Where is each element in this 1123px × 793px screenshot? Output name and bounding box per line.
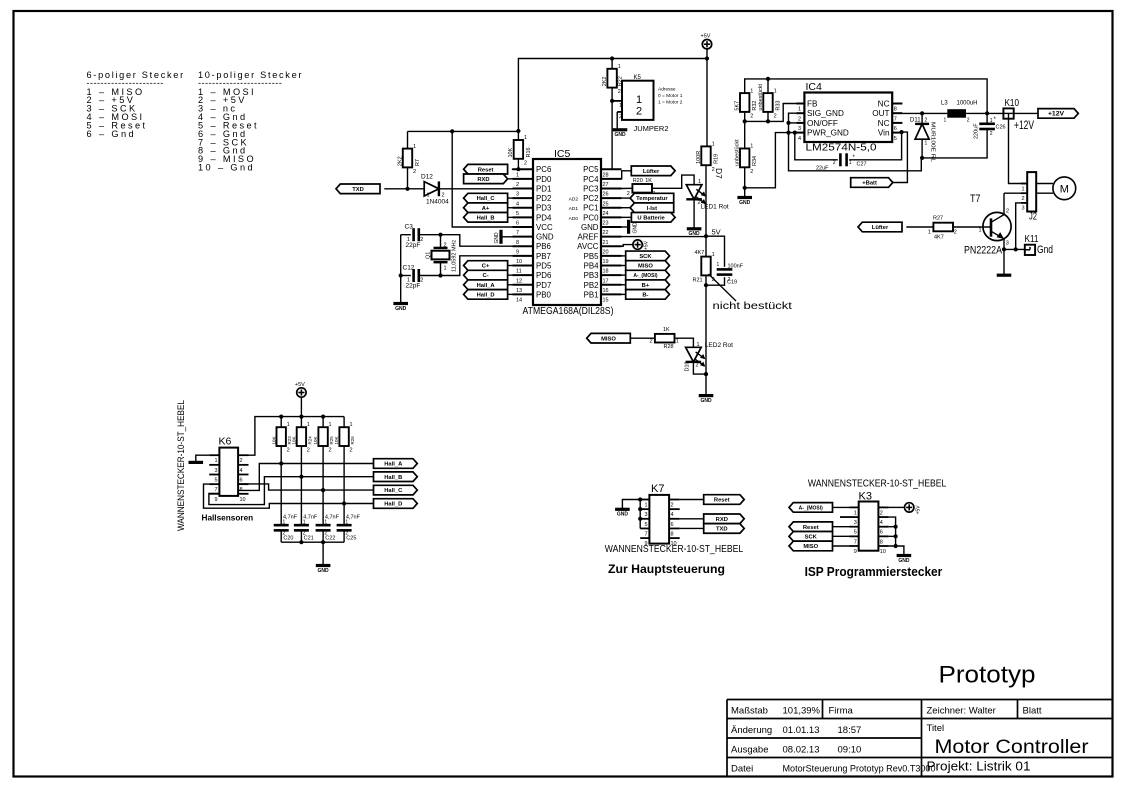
svg-text:5: 5 [214, 478, 217, 484]
svg-text:10K: 10K [334, 436, 339, 444]
wire K3 gnd drop [896, 546, 904, 556]
svg-text:2: 2 [618, 89, 621, 95]
svg-text:GND: GND [633, 222, 639, 234]
pin 5 Vin [892, 132, 902, 134]
svg-text:08.02.13: 08.02.13 [783, 745, 820, 756]
resistor R21 [705, 236, 707, 256]
resistor R34 [740, 149, 749, 168]
title block table [727, 700, 1112, 777]
pin 16 PB2 [601, 284, 622, 286]
svg-text:Datei: Datei [731, 764, 753, 775]
wire jumper gnd [616, 112, 618, 129]
pin 6 PD4 [513, 216, 534, 218]
svg-text:AD2: AD2 [569, 196, 579, 202]
wire R20 to LED1 [652, 175, 694, 188]
pin 26 PC3 [601, 187, 622, 189]
capacitor C20 [274, 524, 289, 527]
svg-text:1: 1 [697, 342, 700, 348]
wire AREF 5V line [622, 236, 707, 238]
svg-text:101,39%: 101,39% [783, 706, 821, 717]
wire K3 pin8 [889, 535, 896, 537]
svg-text:1: 1 [698, 179, 701, 185]
svg-text:WANNENSTECKER-10-ST_HEBEL: WANNENSTECKER-10-ST_HEBEL [605, 544, 744, 555]
svg-text:1: 1 [444, 266, 447, 272]
junction [342, 501, 346, 505]
svg-text:GND: GND [898, 558, 910, 564]
pin 6 NC [892, 122, 902, 124]
svg-text:GND: GND [614, 132, 626, 138]
svg-text:2: 2 [833, 160, 836, 166]
svg-text:K7: K7 [651, 483, 664, 495]
svg-text:3: 3 [1022, 206, 1025, 212]
junction [1014, 247, 1018, 251]
net flag Reset [464, 164, 508, 174]
power +5V top [702, 40, 711, 49]
svg-text:2: 2 [240, 458, 243, 464]
pin 2 SIG_GND [796, 112, 804, 114]
svg-text:Projekt: Listrik 01: Projekt: Listrik 01 [927, 759, 1031, 774]
svg-text:R26: R26 [350, 436, 355, 445]
svg-text:5V: 5V [712, 228, 721, 237]
svg-text:4K7: 4K7 [934, 235, 944, 241]
legend 10-poliger Stecker [198, 70, 303, 172]
svg-text:Lüfter: Lüfter [643, 169, 660, 175]
wire gnd drop [322, 542, 324, 565]
wire Hall_B to pin9 [209, 477, 374, 505]
svg-text:NC: NC [878, 119, 890, 128]
wire +5V to R19 [706, 59, 708, 147]
svg-text:2: 2 [798, 116, 801, 122]
svg-text:0 = Motor 1: 0 = Motor 1 [658, 93, 683, 99]
svg-text:PWR_GND: PWR_GND [807, 129, 849, 138]
svg-text:1: 1 [524, 135, 527, 141]
svg-text:1: 1 [717, 262, 720, 268]
svg-text:PC0: PC0 [583, 213, 599, 222]
ground [613, 128, 628, 131]
resistor R7 [407, 131, 409, 148]
ground [737, 196, 752, 199]
junction [399, 273, 403, 277]
junction [766, 77, 770, 81]
wire K7 gnd [622, 500, 640, 510]
connector K11 Gnd [1025, 245, 1035, 255]
svg-text:3: 3 [214, 468, 217, 474]
resistor R19 [701, 146, 710, 165]
pin 17 PB3 [601, 274, 622, 276]
svg-text:+5V: +5V [916, 505, 922, 515]
net flag A-_(MOSI) [626, 270, 670, 280]
svg-text:TXD: TXD [352, 187, 364, 193]
svg-text:1: 1 [849, 160, 852, 166]
junction [704, 283, 708, 287]
svg-text:7: 7 [644, 531, 647, 537]
svg-text:nicht bestückt: nicht bestückt [713, 300, 792, 312]
wire K3 pin9 [833, 545, 850, 547]
net flag U Batterie [631, 213, 675, 223]
svg-text:Hall_C: Hall_C [477, 196, 496, 202]
svg-text:Lüfter: Lüfter [872, 225, 889, 231]
pin 10 PB7 [513, 255, 534, 257]
svg-text:6: 6 [671, 522, 674, 528]
svg-text:PC2: PC2 [583, 194, 598, 203]
svg-text:L3: L3 [941, 101, 948, 107]
svg-text:I-Ist: I-Ist [647, 206, 657, 212]
ground at pin 22 [627, 220, 630, 234]
svg-text:NC: NC [878, 100, 890, 109]
svg-text:JUMPER2: JUMPER2 [634, 124, 669, 133]
ground at pin 8 [499, 230, 502, 244]
svg-text:WANNENSTECKER-10-ST_HEBEL: WANNENSTECKER-10-ST_HEBEL [808, 479, 947, 490]
svg-text:2: 2 [774, 114, 777, 120]
svg-text:2K2: 2K2 [397, 156, 403, 166]
net flag Hall_A [464, 280, 508, 290]
ground [189, 461, 204, 464]
svg-text:+5V: +5V [295, 382, 305, 388]
svg-text:AREF: AREF [577, 233, 598, 242]
svg-text:LM2574N-5,0: LM2574N-5,0 [806, 142, 877, 154]
svg-text:1: 1 [516, 172, 519, 178]
connector K10 [1003, 108, 1013, 118]
junction [638, 507, 642, 511]
svg-text:18: 18 [603, 269, 609, 275]
svg-text:5K7: 5K7 [735, 101, 741, 111]
pin 7 VCC [513, 226, 534, 228]
svg-text:2: 2 [420, 237, 423, 243]
svg-text:U Batterie: U Batterie [637, 215, 665, 221]
pin 25 PC2 [601, 197, 622, 199]
svg-text:Hall_C: Hall_C [384, 488, 403, 494]
svg-text:6 – Gnd: 6 – Gnd [87, 129, 137, 139]
net flag TXD [336, 184, 380, 194]
LED D7 LED1 Rot [686, 185, 702, 200]
capacitor C3 [401, 234, 411, 236]
svg-text:28: 28 [603, 172, 609, 178]
wire feedback top rail [745, 79, 987, 114]
svg-text:RXD: RXD [716, 517, 728, 523]
svg-text:11,0592 MHz: 11,0592 MHz [452, 239, 458, 272]
svg-text:GND: GND [581, 223, 599, 232]
svg-text:5: 5 [854, 530, 857, 536]
svg-text:Maßstab: Maßstab [731, 706, 768, 717]
svg-text:PB2: PB2 [584, 281, 599, 290]
svg-text:22: 22 [603, 230, 609, 236]
svg-text:PC3: PC3 [583, 184, 599, 193]
svg-text:Hallsensoren: Hallsensoren [202, 513, 254, 523]
svg-text:1: 1 [214, 458, 217, 464]
svg-text:R27: R27 [933, 216, 943, 222]
wire cap gnd [400, 235, 402, 304]
svg-text:C12: C12 [403, 264, 415, 271]
resistor R25 [322, 417, 324, 428]
wire D12 to PD1 [439, 188, 533, 190]
wire K3 pin7 [833, 535, 850, 537]
svg-text:ATMEGA168A(DIL28S): ATMEGA168A(DIL28S) [523, 305, 614, 317]
svg-text:1K: 1K [645, 178, 652, 184]
pin 3 ON/OFF [796, 122, 804, 124]
svg-text:7: 7 [516, 230, 519, 236]
ground [699, 394, 714, 397]
pin 12 PD6 [513, 274, 534, 276]
svg-text:AD0: AD0 [569, 216, 579, 222]
svg-text:PN2222A: PN2222A [964, 245, 1003, 257]
svg-text:1: 1 [303, 520, 306, 526]
wire cap to gnd rail [322, 531, 324, 542]
wire J2 pin3 to K11 [1016, 203, 1027, 250]
svg-text:10K: 10K [271, 436, 276, 444]
svg-text:Reset: Reset [478, 167, 494, 173]
power +5V K3 [905, 503, 914, 512]
wire K7 pin8 TXD [680, 527, 704, 529]
svg-text:GND: GND [617, 512, 629, 518]
svg-text:GND: GND [700, 398, 712, 404]
junction [438, 233, 442, 237]
svg-text:Prototyp: Prototyp [939, 662, 1036, 689]
svg-text:1K: 1K [663, 327, 670, 333]
junction [894, 544, 898, 548]
capacitor C27 [795, 133, 838, 160]
svg-text:7: 7 [854, 539, 857, 545]
wire K10 to J2 [1009, 119, 1028, 184]
LED D10 LED2 Rot [686, 347, 702, 362]
svg-text:1N4004: 1N4004 [426, 199, 449, 206]
pin 22 GND [601, 226, 622, 228]
svg-text:SIG_GND: SIG_GND [807, 109, 844, 118]
svg-text:2: 2 [524, 160, 527, 166]
net flag B+ [626, 280, 670, 290]
wire pullup column [343, 446, 345, 525]
wire K3 pin1 [833, 506, 850, 508]
svg-text:C26: C26 [996, 125, 1006, 131]
svg-text:PC4: PC4 [583, 175, 599, 184]
wire J2 pin2 to collector [1004, 192, 1027, 194]
svg-text:MISO: MISO [638, 264, 653, 270]
svg-text:10: 10 [880, 549, 886, 555]
net flag I-Ist [630, 203, 674, 213]
svg-text:2: 2 [636, 106, 642, 118]
label nicht bestueckt [709, 274, 737, 301]
pin 7 OUT [892, 112, 902, 114]
net flag SCK K3 [789, 532, 833, 542]
junction [450, 129, 454, 133]
svg-text:K10: K10 [1005, 97, 1020, 109]
junction [704, 372, 708, 376]
svg-text:2K2: 2K2 [602, 77, 608, 87]
pin 8 GND [513, 236, 534, 238]
svg-text:C20: C20 [283, 536, 293, 542]
net flag MISO K3 [789, 541, 833, 551]
svg-text:3: 3 [798, 126, 801, 132]
junction [705, 56, 709, 60]
svg-text:D11: D11 [910, 118, 921, 124]
junction [610, 99, 614, 103]
svg-text:2: 2 [925, 118, 928, 124]
svg-text:2: 2 [750, 114, 753, 120]
pin 27 PC4 [601, 178, 622, 180]
power +5V K6 [297, 388, 306, 397]
svg-text:PB0: PB0 [536, 290, 552, 299]
junction [321, 488, 325, 492]
resistor R32 [740, 93, 749, 112]
svg-text:5: 5 [644, 522, 647, 528]
svg-text:15: 15 [603, 298, 609, 304]
ground [316, 564, 331, 567]
svg-text:D12: D12 [421, 174, 433, 181]
junction [299, 475, 303, 479]
net flag Hall_B [374, 472, 418, 482]
svg-text:1: 1 [925, 141, 928, 147]
svg-text:2: 2 [954, 230, 957, 236]
svg-text:1: 1 [1022, 186, 1025, 192]
svg-text:A-_(MOSI): A-_(MOSI) [633, 273, 658, 279]
svg-text:C-: C- [483, 273, 489, 279]
svg-text:3: 3 [644, 512, 647, 518]
junction [894, 525, 898, 529]
pin 20 AVCC [601, 245, 622, 247]
svg-text:IC5: IC5 [554, 148, 571, 160]
svg-text:2: 2 [967, 118, 970, 124]
svg-text:1: 1 [618, 64, 621, 70]
svg-text:Hall_D: Hall_D [384, 502, 402, 508]
svg-text:1: 1 [287, 422, 290, 428]
svg-text:PB7: PB7 [536, 252, 551, 261]
net flag Hall_C [374, 485, 418, 495]
wire Hall_C to pin8 [238, 484, 373, 490]
svg-text:1: 1 [854, 510, 857, 516]
svg-text:10 – Gnd: 10 – Gnd [198, 163, 255, 173]
pin 9 PB6 [513, 245, 534, 247]
wire SIG_GND rail [789, 113, 922, 171]
wire K7 pin2 Reset [680, 499, 704, 501]
svg-text:MUR100E RL: MUR100E RL [930, 122, 936, 163]
svg-text:Hall_A: Hall_A [477, 283, 496, 289]
svg-text:Hall_D: Hall_D [477, 292, 495, 298]
wire K3 pin6 [889, 526, 896, 528]
svg-text:B+: B+ [642, 283, 650, 289]
svg-text:VCC: VCC [536, 223, 553, 232]
resistor R24 [300, 417, 302, 428]
svg-text:ON/OFF: ON/OFF [807, 119, 838, 128]
net flag C- [464, 270, 508, 280]
svg-text:PC1: PC1 [583, 204, 598, 213]
junction [321, 415, 325, 419]
svg-text:7: 7 [894, 116, 897, 122]
svg-text:R20: R20 [633, 178, 643, 184]
net flag B- [626, 290, 670, 300]
svg-text:Reset: Reset [714, 498, 730, 504]
net flag MISO [626, 261, 670, 271]
capacitor C26 [986, 113, 988, 123]
svg-text:PD1: PD1 [536, 184, 551, 193]
svg-text:9: 9 [854, 549, 857, 555]
svg-text:LED1 Rot: LED1 Rot [701, 204, 729, 211]
svg-text:1: 1 [944, 118, 947, 124]
svg-text:1: 1 [644, 503, 647, 509]
svg-text:PB3: PB3 [584, 271, 600, 280]
svg-text:2: 2 [627, 191, 630, 197]
capacitor C22 [316, 524, 331, 527]
junction [516, 167, 520, 171]
wire pullup column [280, 446, 282, 525]
svg-text:IC4: IC4 [806, 81, 823, 93]
wire D11 to C26 bottom [922, 130, 987, 158]
svg-text:K3: K3 [859, 491, 872, 503]
wire R28 to LED2 [675, 338, 694, 347]
wire pullup column [300, 446, 302, 525]
svg-text:4: 4 [516, 201, 519, 207]
junction [920, 111, 924, 115]
svg-text:8: 8 [671, 531, 674, 537]
net flag Luefter T7 [858, 222, 902, 232]
svg-text:J2: J2 [1029, 211, 1037, 223]
svg-text:C27: C27 [857, 162, 867, 168]
pin 23 PC0 [601, 216, 622, 218]
net flag Reset K3 [789, 522, 833, 532]
svg-text:Ausgabe: Ausgabe [731, 745, 769, 756]
junction [920, 156, 924, 160]
svg-text:2: 2 [287, 448, 290, 454]
net flag Temperatur [630, 193, 674, 203]
net flag Luefter PC4 [613, 171, 632, 179]
svg-text:Temperatur: Temperatur [636, 196, 668, 202]
svg-text:1: 1 [990, 118, 993, 124]
svg-text:10: 10 [240, 497, 246, 503]
svg-text:2: 2 [413, 169, 416, 175]
svg-text:10: 10 [516, 259, 522, 265]
inductor L3 [947, 109, 966, 118]
junction [299, 415, 303, 419]
net flag +Batt [851, 178, 893, 188]
svg-text:Q1: Q1 [426, 252, 432, 259]
connector K3 [859, 502, 879, 551]
ground [615, 508, 630, 511]
junction [279, 461, 283, 465]
wire K3 pin2 +5V [889, 506, 905, 508]
svg-text:R22: R22 [617, 76, 623, 86]
junction [610, 56, 614, 60]
svg-text:K6: K6 [219, 436, 232, 448]
connector K5 JUMPER2 [622, 81, 654, 120]
ground [687, 227, 702, 230]
net flag Hall_A [374, 459, 418, 469]
svg-text:100nF: 100nF [728, 264, 744, 270]
svg-text:T7: T7 [970, 193, 981, 205]
svg-text:Zeichner: Walter: Zeichner: Walter [927, 706, 996, 717]
wire +5V top rail [518, 59, 707, 132]
svg-text:01.01.13: 01.01.13 [783, 725, 820, 736]
junction [985, 111, 989, 115]
svg-text:SCK: SCK [805, 534, 818, 540]
connector K6 [219, 448, 238, 496]
svg-text:9: 9 [214, 497, 217, 503]
svg-text:09:10: 09:10 [838, 745, 862, 756]
IC U IC5 ATMEGA168A [533, 159, 601, 305]
svg-text:+Batt: +Batt [862, 181, 877, 187]
ground [393, 302, 408, 305]
svg-text:1: 1 [712, 142, 715, 148]
ground [897, 554, 912, 557]
svg-text:220uF: 220uF [974, 123, 980, 139]
svg-text:PD4: PD4 [536, 213, 552, 222]
svg-text:4: 4 [240, 468, 243, 474]
svg-text:4: 4 [671, 512, 674, 518]
svg-text:D7: D7 [714, 168, 724, 179]
svg-text:Motor Controller: Motor Controller [935, 736, 1090, 758]
svg-text:2: 2 [990, 131, 993, 137]
svg-text:2: 2 [696, 363, 699, 369]
svg-text:PC6: PC6 [536, 165, 552, 174]
wire motor [1036, 183, 1053, 185]
junction [638, 517, 642, 521]
